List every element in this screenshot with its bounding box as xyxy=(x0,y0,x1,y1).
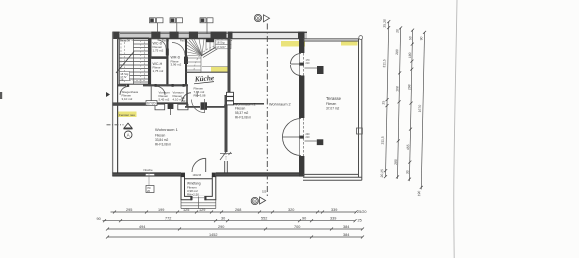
svg-text:55,37 m2: 55,37 m2 xyxy=(235,111,249,115)
threshold marks corridor doors xyxy=(127,84,185,87)
svg-text:30: 30 xyxy=(221,217,225,221)
radiator boxes xyxy=(227,92,234,105)
svg-text:RH=3,08 m: RH=3,08 m xyxy=(235,116,252,120)
kitchen door arc xyxy=(192,100,205,113)
svg-text:50: 50 xyxy=(408,36,412,40)
svg-text:280: 280 xyxy=(394,159,398,165)
door at wall end xyxy=(220,152,226,160)
niche in bottom wall xyxy=(146,174,155,176)
svg-text:25,20: 25,20 xyxy=(383,19,387,28)
right vertical dimension chains xyxy=(385,22,424,190)
svg-text:90: 90 xyxy=(97,217,101,221)
svg-text:100/215: 100/215 xyxy=(193,174,202,177)
scan crease line right side xyxy=(454,0,457,258)
wall Wohnraum1 / Wohnraum2 xyxy=(228,38,231,95)
svg-text:298: 298 xyxy=(407,84,411,90)
section line B xyxy=(266,24,268,197)
svg-text:RH=3,08: RH=3,08 xyxy=(194,94,206,98)
row3 ticks xyxy=(106,228,364,231)
left wall xyxy=(112,32,114,176)
stair 2 label boxes xyxy=(216,40,232,44)
svg-text:RH=2,50: RH=2,50 xyxy=(187,192,199,196)
svg-text:30: 30 xyxy=(406,170,410,174)
svg-text:311,5: 311,5 xyxy=(382,59,386,67)
B marker top xyxy=(254,14,261,21)
stair 1 dashed walk lines xyxy=(121,40,145,83)
svg-text:180: 180 xyxy=(408,52,412,58)
svg-text:339: 339 xyxy=(331,208,337,212)
svg-text:Fliesen: Fliesen xyxy=(235,107,246,111)
terrace right wall box xyxy=(357,128,363,134)
svg-text:5,45 m2: 5,45 m2 xyxy=(159,97,170,101)
terrace outline xyxy=(303,39,362,180)
svg-text:Par.90: Par.90 xyxy=(180,40,188,43)
svg-text:20,25: 20,25 xyxy=(380,169,384,178)
stair 1 break line xyxy=(116,52,134,74)
box 67/20 xyxy=(146,101,157,106)
wall WR-D / stair2 xyxy=(185,38,187,86)
svg-text:280: 280 xyxy=(395,49,399,55)
chimney vent symbols xyxy=(150,18,214,34)
svg-text:384: 384 xyxy=(343,233,349,237)
kitchen door post X xyxy=(201,102,208,110)
svg-text:700: 700 xyxy=(294,225,300,229)
terrace pier 2 xyxy=(317,139,324,145)
winder stair 2 xyxy=(187,39,228,73)
door stiegenhaus xyxy=(120,86,129,95)
svg-text:A: A xyxy=(127,133,130,138)
svg-text:Terasse: Terasse xyxy=(326,96,342,101)
WC-D door arc xyxy=(158,40,167,49)
svg-text:311,5: 311,5 xyxy=(381,136,385,144)
stair 1 box (Stiegenhaus) xyxy=(119,38,148,84)
stair 2 break line xyxy=(201,38,231,56)
Windfang xyxy=(181,177,216,200)
svg-text:125: 125 xyxy=(183,208,189,212)
right main wall with door openings xyxy=(299,32,304,177)
svg-text:Wohnraum 2: Wohnraum 2 xyxy=(269,103,291,107)
row1 ticks xyxy=(113,211,358,214)
svg-text:Fliesen: Fliesen xyxy=(155,134,166,138)
stub near bottom wall xyxy=(224,161,226,173)
stair 2 walk line xyxy=(194,43,226,70)
stair 1 treads xyxy=(119,38,148,84)
svg-text:Parap.90: Parap.90 xyxy=(120,40,130,43)
hatched pier at stair2 xyxy=(206,38,214,42)
svg-text:33,84 m2: 33,84 m2 xyxy=(155,138,169,142)
corridor wall under WC rooms xyxy=(143,84,188,86)
left wall mark xyxy=(106,92,110,97)
terrace pier xyxy=(317,66,324,74)
svg-text:339: 339 xyxy=(330,217,336,221)
svg-text:210: 210 xyxy=(181,99,186,103)
top wall main building xyxy=(112,32,307,39)
svg-text:20: 20 xyxy=(147,189,151,193)
section A line xyxy=(107,124,124,126)
svg-text:3,10 m2: 3,10 m2 xyxy=(122,97,133,101)
svg-text:RH=3,08 m: RH=3,08 m xyxy=(155,143,172,147)
svg-text:190: 190 xyxy=(417,191,421,197)
svg-text:455: 455 xyxy=(406,144,410,150)
svg-text:18 Stg: 18 Stg xyxy=(216,40,225,44)
svg-text:B: B xyxy=(257,16,260,21)
svg-text:210: 210 xyxy=(306,62,311,65)
svg-text:Par.90: Par.90 xyxy=(162,40,170,43)
bottom wall left segment xyxy=(113,173,181,177)
svg-text:Fenster neu: Fenster neu xyxy=(119,113,135,117)
svg-text:B: B xyxy=(253,199,256,204)
svg-text:25/20: 25/20 xyxy=(357,210,367,214)
svg-text:20: 20 xyxy=(396,29,400,33)
svg-text:210: 210 xyxy=(306,136,311,139)
svg-text:290: 290 xyxy=(218,225,224,229)
svg-text:1,75 m2: 1,75 m2 xyxy=(153,69,164,73)
terrace corner circle xyxy=(359,36,363,40)
corridor divider xyxy=(150,86,152,100)
svg-text:37,07 m2: 37,07 m2 xyxy=(326,107,340,111)
svg-text:67/20: 67/20 xyxy=(147,102,156,106)
row4 ticks xyxy=(106,236,364,239)
WR-D door arc xyxy=(172,43,185,56)
svg-text:129: 129 xyxy=(199,208,205,212)
svg-text:199: 199 xyxy=(158,208,164,212)
svg-text:Fliesen: Fliesen xyxy=(326,102,337,106)
svg-text:25: 25 xyxy=(358,219,362,223)
svg-text:Wohnraum 1: Wohnraum 1 xyxy=(155,127,179,132)
bottom wall right segment xyxy=(216,173,301,177)
svg-text:3,96 m2: 3,96 m2 xyxy=(171,63,182,67)
WR-D door post xyxy=(184,57,188,65)
section A marker xyxy=(124,123,132,128)
svg-text:772: 772 xyxy=(165,217,171,221)
windfang door xyxy=(192,158,206,172)
svg-text:1670: 1670 xyxy=(418,105,422,113)
svg-text:Nische: Nische xyxy=(144,168,154,172)
svg-text:28: 28 xyxy=(120,78,124,82)
WC separator wall xyxy=(151,57,168,59)
bottom dimension rows xyxy=(103,212,363,237)
svg-text:1,75 m2: 1,75 m2 xyxy=(153,48,164,52)
double door arcs opening 1 xyxy=(291,54,302,76)
svg-text:384: 384 xyxy=(343,225,349,229)
svg-text:295: 295 xyxy=(126,208,132,212)
entry steps xyxy=(181,196,216,208)
B marker bottom xyxy=(251,197,258,204)
svg-text:320: 320 xyxy=(288,208,294,212)
stair 1 label box xyxy=(120,72,130,81)
center posts of double doors xyxy=(299,63,304,66)
door vorraum xyxy=(157,86,166,95)
WC-D door post xyxy=(166,49,169,56)
wall stair/WC xyxy=(149,38,152,86)
svg-text:1452: 1452 xyxy=(209,233,217,237)
row2 ticks xyxy=(103,219,357,222)
svg-text:525: 525 xyxy=(262,190,267,194)
WC-D room xyxy=(151,38,168,57)
door WR xyxy=(183,93,192,102)
svg-text:90: 90 xyxy=(419,36,423,40)
yellow highlight 2 (Kueche) xyxy=(211,67,228,72)
svg-text:552: 552 xyxy=(261,217,267,221)
kitchen area lines xyxy=(186,86,188,106)
svg-text:494: 494 xyxy=(139,225,145,229)
windfang front door opening xyxy=(192,196,205,201)
svg-text:268: 268 xyxy=(235,208,241,212)
wall WC / WR-D xyxy=(166,38,168,86)
svg-text:108: 108 xyxy=(395,86,399,92)
wall top of Wohnraum 1 xyxy=(113,102,146,105)
yellow highlight 1 (left, Wohnraum 1) xyxy=(118,112,137,118)
svg-text:90: 90 xyxy=(302,217,306,221)
yellow highlight 4 (terrace top) xyxy=(341,41,358,46)
double door arcs opening 2 xyxy=(283,119,302,156)
yellow highlight 3 (Wohnraum 2 top) xyxy=(281,41,305,47)
svg-text:17,9/27: 17,9/27 xyxy=(216,45,226,49)
svg-text:25: 25 xyxy=(382,101,386,105)
left edge scan blob xyxy=(0,92,2,99)
